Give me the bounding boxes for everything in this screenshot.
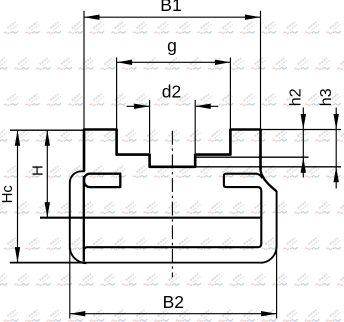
svg-text:B2: B2: [163, 292, 184, 312]
svg-text:h3: h3: [318, 88, 335, 106]
svg-text:B1: B1: [160, 0, 181, 15]
svg-text:g: g: [167, 36, 177, 56]
svg-text:d2: d2: [162, 82, 181, 102]
svg-text:h2: h2: [287, 88, 304, 106]
svg-text:H: H: [29, 165, 46, 176]
svg-text:Hc: Hc: [0, 185, 16, 204]
